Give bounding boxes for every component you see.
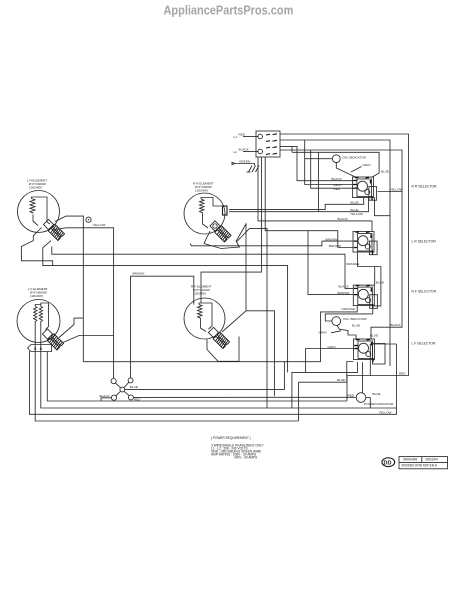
svg-text:30000348: 30000348 bbox=[403, 458, 417, 462]
logo stamp bbox=[382, 458, 395, 467]
svg-text:BROWN: BROWN bbox=[133, 272, 145, 276]
svg-text:YELLOW: YELLOW bbox=[379, 410, 392, 414]
wire brown TB to LR selector bbox=[265, 158, 353, 248]
svg-text:RED: RED bbox=[239, 133, 246, 137]
element R F (right front) bbox=[184, 298, 225, 339]
element L R plug connector bbox=[43, 219, 65, 241]
wire yellow RR selector bottom bbox=[375, 197, 391, 216]
wire LR element to X node NE bbox=[43, 241, 288, 373]
svg-text:BROWN: BROWN bbox=[329, 244, 341, 248]
wire bus 414.3 yellow bbox=[30, 344, 397, 414]
wire bus 401 bbox=[47, 352, 347, 402]
svg-text:ORANGE: ORANGE bbox=[346, 262, 359, 266]
wire TB feed to RF element bbox=[201, 158, 262, 304]
wire red X node to power indicator bbox=[134, 396, 357, 398]
svg-text:BLUE: BLUE bbox=[376, 281, 384, 285]
wire RR housing down bbox=[237, 228, 267, 408]
element R R (right rear) bbox=[184, 193, 227, 234]
wire LF selector to power indicator bbox=[362, 362, 364, 392]
svg-text:YELLOW: YELLOW bbox=[93, 223, 106, 227]
indicator lamp POWER bbox=[356, 393, 366, 403]
svg-text:GRAY: GRAY bbox=[363, 163, 372, 167]
wire L1 bbox=[243, 136, 258, 138]
svg-text:L1: L1 bbox=[234, 135, 238, 139]
indicator lamp OVL 1 bbox=[332, 155, 340, 163]
ground symbol bbox=[247, 166, 260, 173]
wire OVL1 to RR selector bbox=[336, 163, 356, 177]
svg-text:GREEN: GREEN bbox=[239, 159, 250, 163]
svg-text:RED: RED bbox=[348, 393, 355, 397]
wire relay box right of LF selector bbox=[370, 344, 396, 376]
junction node X bbox=[100, 378, 142, 401]
svg-text:BROWN: BROWN bbox=[338, 291, 350, 295]
svg-text:BLUE: BLUE bbox=[351, 201, 359, 205]
wire OVL1 left feed bbox=[305, 158, 332, 160]
svg-text:240V - 30 AMPS: 240V - 30 AMPS bbox=[234, 456, 257, 460]
svg-text:YELLOW: YELLOW bbox=[350, 212, 363, 216]
wire blue RR selector to RR element lower bbox=[229, 197, 369, 212]
wire orange LR selector down bbox=[358, 252, 381, 306]
svg-text:120/240V: 120/240V bbox=[29, 186, 43, 190]
wire LR element to X node NW bbox=[55, 228, 114, 379]
svg-text:GRAY: GRAY bbox=[319, 330, 328, 334]
wire bus 408 bbox=[41, 352, 397, 409]
svg-text:R R SELECTOR: R R SELECTOR bbox=[412, 184, 438, 188]
wire red feed RR selector bbox=[311, 150, 354, 188]
wire yellow RR selector right bbox=[378, 191, 403, 193]
element L F plug connector bbox=[42, 328, 64, 350]
ground wire GREEN bbox=[234, 164, 255, 166]
wire gray feed RR selector bbox=[305, 159, 354, 185]
wire black X node to bus bbox=[101, 398, 111, 401]
element R R plug connector bbox=[209, 220, 231, 242]
svg-text:AppliancePartsPros.com: AppliancePartsPros.com bbox=[164, 3, 294, 18]
wire LR element to RF selector left bbox=[52, 247, 354, 289]
wire RR housing to bus bbox=[190, 241, 322, 246]
selector switch R F bbox=[353, 285, 377, 308]
svg-text:BLACK: BLACK bbox=[239, 148, 250, 152]
wire L2 feed bbox=[280, 140, 390, 366]
wire LF selector bottom to bus bbox=[292, 362, 358, 408]
wire box left edge bbox=[318, 152, 320, 211]
wire blue RR selector to RR element upper bbox=[229, 197, 364, 209]
wire TB to right column bbox=[280, 150, 402, 339]
wire bus upper bbox=[292, 146, 379, 177]
selector switch L F bbox=[354, 339, 386, 364]
svg-text:R F SELECTOR: R F SELECTOR bbox=[412, 290, 437, 294]
svg-text:BLACK: BLACK bbox=[338, 217, 349, 221]
svg-text:RED: RED bbox=[399, 372, 406, 376]
element L F (left front, dual coil) bbox=[17, 300, 60, 352]
svg-text:120/240V: 120/240V bbox=[195, 189, 209, 193]
svg-text:120/240V: 120/240V bbox=[30, 294, 44, 298]
element R R housing outline bbox=[204, 231, 240, 249]
wire LR element stair left bbox=[21, 228, 52, 266]
node marker A bbox=[86, 217, 91, 222]
element R F plug connector bbox=[208, 327, 230, 349]
element L R (left rear) bbox=[18, 191, 60, 233]
selector switch R R bbox=[353, 177, 377, 200]
svg-text:L R SELECTOR: L R SELECTOR bbox=[412, 239, 437, 243]
svg-text:BROWN: BROWN bbox=[326, 237, 338, 241]
wire LF plug fan upper bbox=[59, 318, 83, 337]
wire OVL1 feed from L2 line bbox=[304, 140, 306, 159]
wire yellow LR element to left vertical bbox=[55, 216, 321, 362]
svg-text:L2: L2 bbox=[234, 150, 238, 154]
svg-text:09/22/04: 09/22/04 bbox=[426, 458, 439, 462]
svg-text:( POWER REQUIREMENT ): ( POWER REQUIREMENT ) bbox=[211, 436, 251, 440]
svg-text:3000000 0078 4SP EN A: 3000000 0078 4SP EN A bbox=[402, 464, 438, 468]
svg-text:RED: RED bbox=[334, 187, 341, 191]
svg-text:BLUE: BLUE bbox=[370, 334, 378, 338]
indicator lamp OVL 2 bbox=[332, 317, 341, 326]
wire RF element fan to X red line bbox=[222, 224, 274, 396]
wire OVL2 left feed bbox=[325, 309, 373, 322]
svg-text:BLACK: BLACK bbox=[332, 177, 343, 181]
svg-text:DD: DD bbox=[384, 460, 392, 466]
svg-text:120/240V: 120/240V bbox=[193, 292, 207, 296]
svg-text:OVL INDICATOR: OVL INDICATOR bbox=[343, 317, 367, 321]
svg-text:BLUE: BLUE bbox=[352, 324, 360, 328]
wire L2 bbox=[243, 151, 258, 153]
wire bus 421 bbox=[35, 352, 298, 422]
wire gray LF selector stair bbox=[306, 349, 354, 373]
wire stub power indicator bbox=[369, 398, 371, 409]
wire RF selector left lower feed bbox=[308, 231, 353, 295]
selector switch L R bbox=[353, 232, 377, 255]
svg-text:ORANGE: ORANGE bbox=[342, 307, 355, 311]
wire power indicator right bbox=[366, 397, 371, 399]
svg-text:POWER INDICATOR: POWER INDICATOR bbox=[364, 402, 394, 406]
wire blue X node line bbox=[125, 362, 285, 390]
wire TB to RR selector black bbox=[280, 146, 354, 180]
svg-text:BLUE: BLUE bbox=[381, 170, 389, 174]
notes power requirement bbox=[211, 436, 264, 460]
wire OVL2 to LF selector bbox=[337, 325, 356, 339]
svg-text:OVL INDICATOR: OVL INDICATOR bbox=[342, 156, 366, 160]
wire brown X node NE feed bbox=[131, 276, 194, 378]
element L F terminal bracket bbox=[28, 345, 52, 352]
svg-text:BLACK: BLACK bbox=[391, 323, 402, 327]
terminal block TB1 bbox=[256, 131, 280, 157]
svg-text:BLUE: BLUE bbox=[337, 378, 345, 382]
svg-text:GRAY: GRAY bbox=[328, 345, 337, 349]
wire L1 feed to right column bbox=[280, 134, 409, 401]
svg-text:YELLOW: YELLOW bbox=[390, 188, 403, 192]
svg-text:BLUE: BLUE bbox=[373, 392, 381, 396]
wire gray leader bbox=[351, 167, 362, 173]
wire LF plug fan lower bbox=[63, 336, 114, 343]
wire stair to bus 421 bbox=[299, 362, 354, 422]
svg-text:BLUE: BLUE bbox=[130, 385, 138, 389]
title table bbox=[399, 457, 448, 469]
wire black TB to LR selector bbox=[258, 158, 372, 232]
wire orange RF selector stair bbox=[321, 306, 358, 362]
element R F housing outline bbox=[207, 337, 239, 362]
svg-text:L F SELECTOR: L F SELECTOR bbox=[412, 341, 436, 345]
